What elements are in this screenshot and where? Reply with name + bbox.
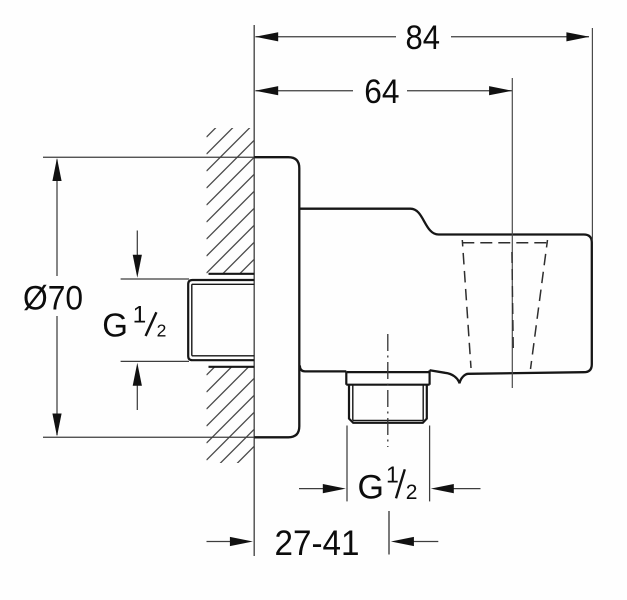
bottom G1/2 dim extension lines: [346, 426, 348, 502]
wall hole top edge: [209, 273, 255, 275]
wall line: [253, 25, 255, 556]
left nipple G1/2 outer: [188, 280, 254, 360]
body outline top: [299, 209, 592, 384]
bottom nipple centerline dash-dot: [387, 334, 389, 447]
cone hidden right edge: [531, 240, 548, 369]
svg-text:2: 2: [406, 481, 418, 504]
dimension 84 right extension line: [591, 28, 593, 240]
left G1/2 text: [102, 302, 166, 344]
bottom centerline lower segment: [388, 511, 390, 555]
svg-text:27-41: 27-41: [275, 524, 360, 563]
bottom nipple thread inner lines: [353, 385, 423, 421]
cone hidden line near center: [512, 252, 513, 350]
svg-text:64: 64: [364, 73, 399, 111]
dimension D70 extension top: [43, 156, 254, 158]
svg-text:84: 84: [406, 19, 441, 57]
wall hole bottom edge: [209, 366, 255, 368]
dimension D70 extension bottom: [43, 436, 254, 438]
dimension 27-41 arrows: [207, 537, 439, 546]
body bottom left segment with fillet into flange: [300, 365, 347, 371]
dimension 84 line: [255, 32, 589, 41]
svg-text:Ø70: Ø70: [23, 279, 83, 317]
cone hidden top edge: [462, 242, 547, 244]
cone hidden left edge: [462, 240, 471, 368]
svg-text:2: 2: [157, 321, 167, 341]
bottom nipple thread outer: [349, 385, 427, 423]
bottom nipple collar: [346, 370, 429, 384]
left G1/2 dim arrows: [133, 231, 142, 411]
svg-text:1: 1: [133, 302, 147, 329]
svg-text:1: 1: [386, 461, 399, 487]
bottom G1/2 dim arrows: [299, 484, 481, 493]
left nipple thread inner lines: [192, 284, 254, 356]
svg-text:G: G: [102, 306, 128, 343]
dimension D70 line + arrows: [52, 158, 61, 437]
flange (escutcheon): [254, 157, 299, 437]
svg-text:G: G: [358, 469, 384, 507]
bottom G1/2 text: [358, 461, 418, 506]
holder cup centerline (64 extension): [511, 78, 513, 388]
wall hatching: [207, 90, 255, 512]
left G1/2 dim extension lines: [121, 278, 189, 280]
dimension 64 line: [255, 86, 512, 95]
